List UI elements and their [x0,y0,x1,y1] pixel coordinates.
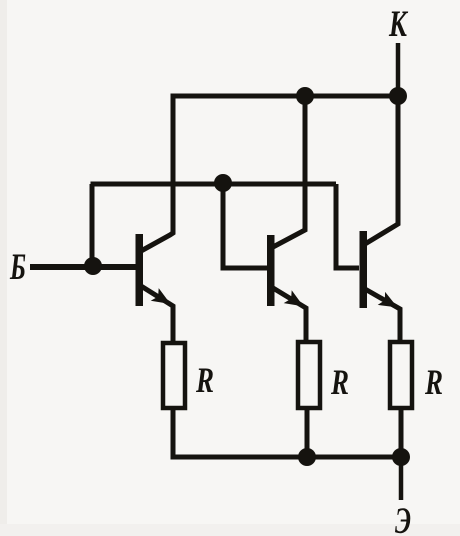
wire: top collector bus [171,94,399,99]
junction node: top bus / Q2 collector [296,87,314,105]
wire: vertical riser from base node up to base bus [90,184,95,266]
resistor R2 body [298,342,320,408]
svg-text:R: R [195,360,214,400]
resistor R1 body [163,343,185,408]
transistor Q2 base bar [267,235,275,306]
wire: Q1 collector (vertical + diagonal to bar) [141,96,173,251]
transistor Q2 emitter with arrow [273,288,306,340]
wire: Q3 base tap (drop + horizontal into bar) [336,184,359,268]
wire: base input lead from Б to Q1 base bar [30,264,136,270]
wire: R3 bottom lead [399,408,404,457]
svg-text:R: R [330,362,349,402]
transistor Q3 base bar [360,231,368,308]
wire: R2 bottom lead [305,408,310,457]
junction node: bottom bus / Э terminal [392,448,410,466]
resistor R1 value label [195,360,214,400]
transistor Q1 emitter with arrow [141,286,173,341]
wire: R1 bottom lead [171,408,176,457]
wire: collector terminal lead (К down to top bus) [396,43,401,96]
wire: Q2 collector (vertical + diagonal to bar) [273,96,305,247]
wire: base bus (horizontal) [91,182,337,187]
svg-text:Б: Б [9,247,26,288]
terminal label К (collector) [388,4,408,45]
transistor Q1 base bar [136,234,144,306]
terminal label Б (base) [9,247,26,288]
terminal label Э (emitter) [395,501,411,536]
wire: Q2 base tap (drop + horizontal into bar) [223,184,267,268]
transistor Q3 emitter with arrow [365,289,400,340]
svg-text:Э: Э [395,501,411,536]
junction node: bottom bus / R2 [298,448,316,466]
wire: bottom emitter bus [171,455,402,460]
wire: Q3 collector (vertical + diagonal to bar) [365,96,398,244]
junction node: base input [84,257,102,275]
wire: emitter terminal lead (down to Э) [399,457,404,500]
resistor R3 value label [424,362,443,402]
junction node: base bus / Q2 tap [214,174,232,192]
resistor R3 body [390,342,412,408]
resistor R2 value label [330,362,349,402]
svg-text:К: К [388,4,408,45]
svg-text:R: R [424,362,443,402]
junction node: top bus / К terminal [389,87,407,105]
